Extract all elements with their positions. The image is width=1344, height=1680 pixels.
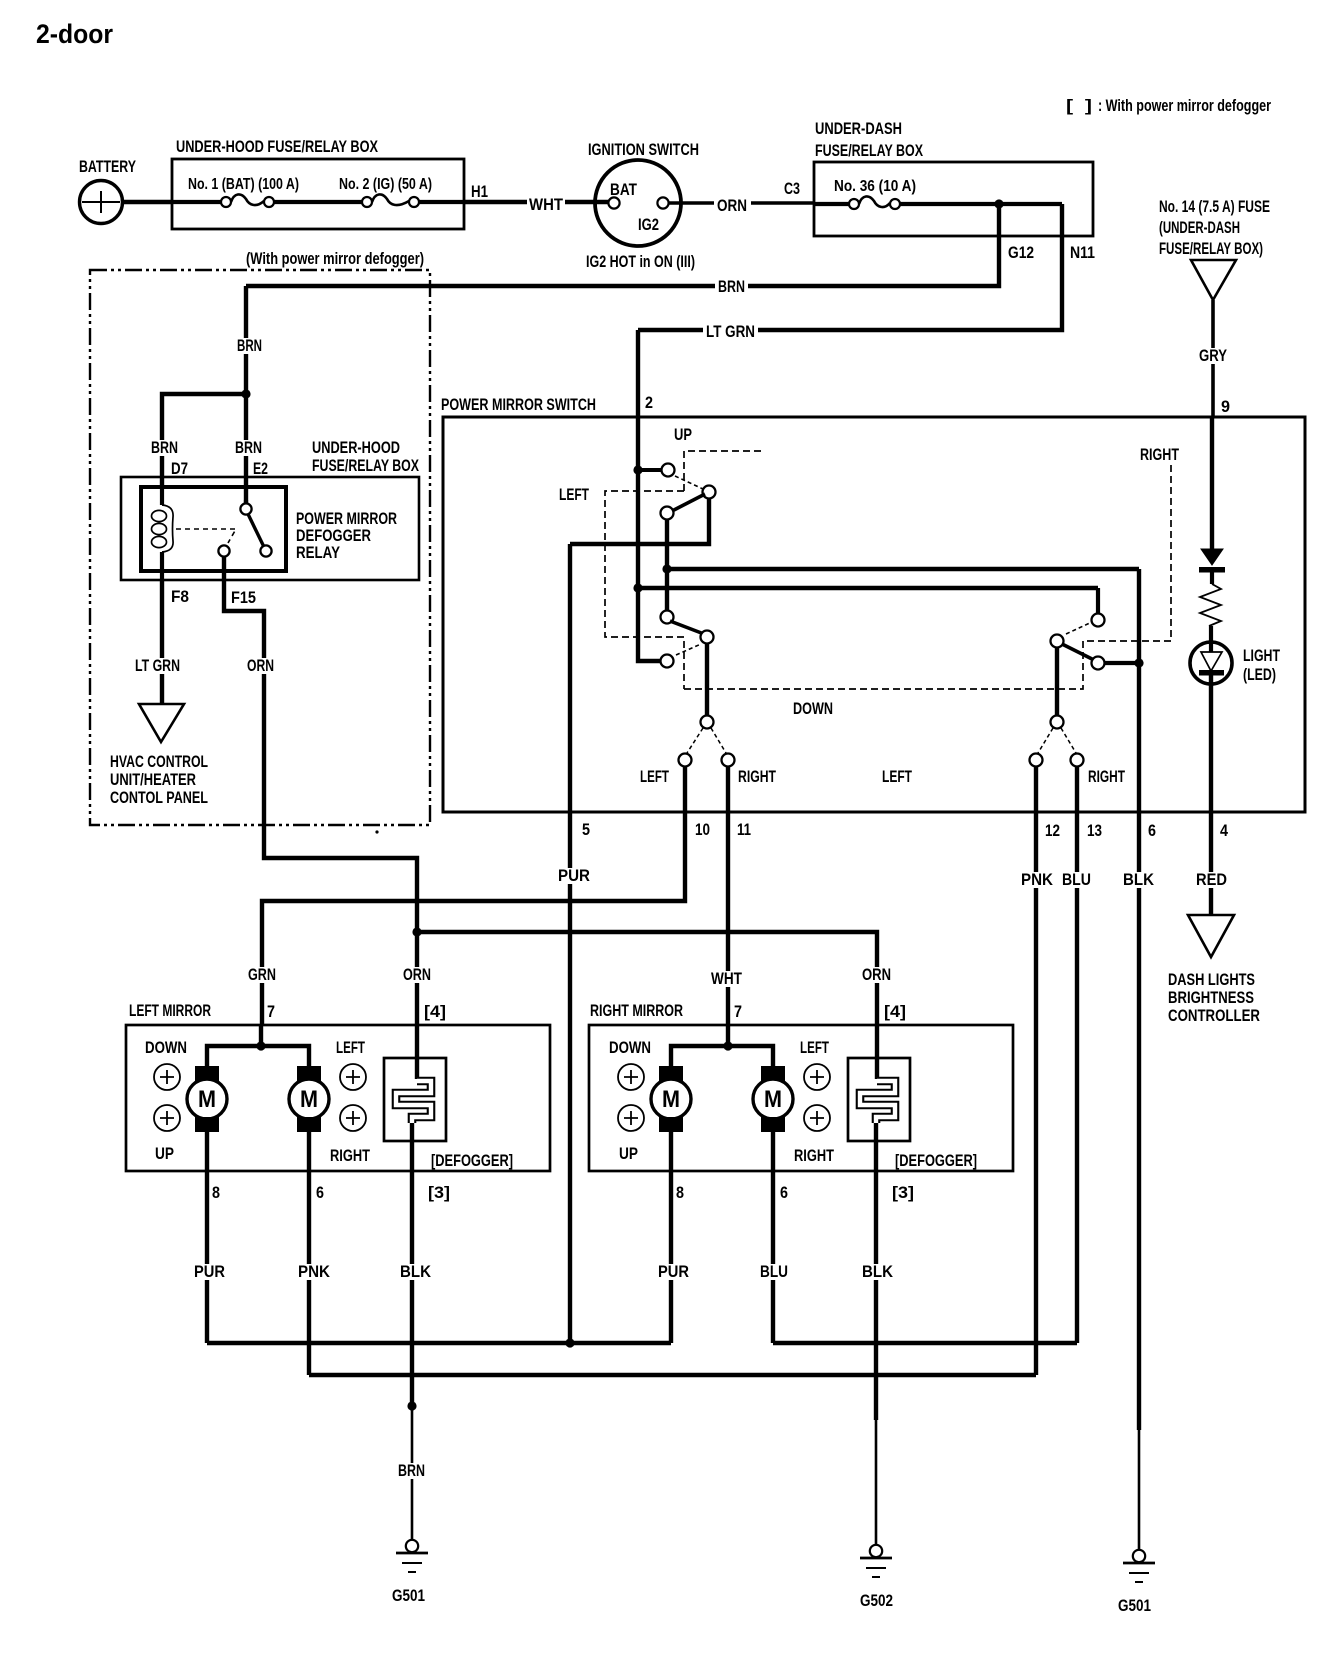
svg-text:LEFT: LEFT	[640, 767, 669, 786]
wires to pins 10 and 11	[683, 766, 687, 812]
under-hood fuse/relay box (relay)	[121, 477, 419, 580]
svg-text:UNDER-DASH: UNDER-DASH	[815, 119, 902, 138]
wire RED from pin 4	[1209, 812, 1213, 915]
wire GRN pin 10 to left mirror pin 7	[262, 812, 685, 1025]
wire to right switch lower feed	[638, 586, 1098, 590]
wire BLK right mirror pin 3 to ground G502	[874, 1171, 878, 1420]
motor wires to pins 8 and 6	[205, 1132, 209, 1171]
wire PNK left mirror pin 6	[307, 1171, 311, 1375]
wire defogger to pin [3]	[410, 1123, 414, 1171]
stray mark	[375, 830, 378, 833]
LEFT dashed position box	[605, 491, 684, 689]
svg-text:FUSE/RELAY BOX): FUSE/RELAY BOX)	[1159, 239, 1263, 258]
svg-text:ORN: ORN	[717, 196, 747, 215]
svg-text:11: 11	[737, 820, 751, 839]
junction node BRN split	[241, 389, 250, 398]
svg-text:G12: G12	[1008, 243, 1034, 262]
svg-text:: With power mirror defogger: : With power mirror defogger	[1098, 96, 1271, 115]
svg-text:LEFT: LEFT	[882, 767, 912, 786]
right mirror box	[589, 1025, 1013, 1171]
svg-text:[DEFOGGER]: [DEFOGGER]	[431, 1151, 513, 1170]
wire LT GRN to HVAC	[160, 580, 164, 704]
pivot contact and arm (upper)	[703, 486, 716, 499]
dashed box: with power mirror defogger	[90, 270, 430, 825]
svg-text:PUR: PUR	[658, 1262, 689, 1281]
svg-text:F8: F8	[171, 587, 189, 606]
polarity marks	[154, 1064, 180, 1090]
svg-text:IGNITION SWITCH: IGNITION SWITCH	[588, 140, 699, 159]
diode	[1201, 549, 1223, 565]
svg-text:CONTOL PANEL: CONTOL PANEL	[110, 788, 208, 807]
svg-text:M: M	[662, 1086, 680, 1113]
under-hood fuse/relay box	[172, 159, 464, 229]
svg-text:RIGHT: RIGHT	[794, 1146, 834, 1165]
svg-text:UP: UP	[155, 1144, 174, 1163]
svg-text:RIGHT MIRROR: RIGHT MIRROR	[590, 1001, 683, 1020]
svg-text:[3]: [3]	[892, 1183, 914, 1202]
svg-text:CONTROLLER: CONTROLLER	[1168, 1006, 1260, 1025]
svg-text:WHT: WHT	[529, 195, 564, 214]
svg-text:BRN: BRN	[398, 1461, 425, 1480]
wire BLK from pin 6 to ground	[1137, 812, 1141, 1430]
svg-text:POWER MIRROR SWITCH: POWER MIRROR SWITCH	[441, 395, 596, 414]
svg-text:8: 8	[676, 1183, 684, 1202]
junction on pin 2 column	[633, 583, 642, 592]
wire battery to under-hood fuse box	[123, 200, 172, 204]
svg-text:10: 10	[695, 820, 710, 839]
svg-text:DASH LIGHTS: DASH LIGHTS	[1168, 970, 1255, 989]
selector common right	[1055, 647, 1059, 716]
svg-text:13: 13	[1087, 821, 1102, 840]
svg-text:(UNDER-DASH: (UNDER-DASH	[1159, 218, 1240, 237]
svg-text:PUR: PUR	[194, 1262, 225, 1281]
svg-text:(With power mirror defogger): (With power mirror defogger)	[246, 249, 424, 268]
svg-text:BLK: BLK	[1123, 870, 1155, 889]
svg-text:GRY: GRY	[1199, 346, 1228, 365]
svg-text:BRIGHTNESS: BRIGHTNESS	[1168, 988, 1254, 1007]
power mirror defogger relay	[141, 487, 286, 571]
svg-text:PNK: PNK	[1021, 870, 1054, 889]
left mirror box	[126, 1025, 550, 1171]
svg-text:M: M	[764, 1086, 782, 1113]
connector arrow to HVAC control unit	[139, 704, 184, 742]
svg-text:G501: G501	[392, 1586, 425, 1605]
pin 2 column wire	[638, 330, 660, 661]
up/down switch lower section	[661, 611, 674, 624]
DOWN and RIGHT dashed position boxes	[684, 464, 1171, 689]
svg-text:UP: UP	[674, 425, 692, 444]
svg-text:DOWN: DOWN	[609, 1038, 651, 1057]
svg-text:UNDER-HOOD: UNDER-HOOD	[312, 438, 400, 457]
svg-text:BLK: BLK	[862, 1262, 894, 1281]
resistor	[1200, 584, 1221, 626]
junction node BRN	[407, 1401, 416, 1410]
svg-text:FUSE/RELAY BOX: FUSE/RELAY BOX	[815, 141, 923, 160]
svg-text:[ ]: [ ]	[1066, 96, 1092, 115]
motor up/down	[195, 1066, 219, 1081]
svg-text:BLK: BLK	[400, 1262, 432, 1281]
svg-text:LIGHT: LIGHT	[1243, 646, 1280, 665]
svg-text:ORN: ORN	[403, 965, 431, 984]
dashed link UP	[675, 476, 703, 489]
svg-text:ORN: ORN	[862, 965, 891, 984]
light LED	[1190, 642, 1232, 684]
svg-text:LEFT: LEFT	[336, 1038, 365, 1057]
wire pin 7 branch to motors	[259, 1025, 263, 1046]
svg-text:UP: UP	[619, 1144, 638, 1163]
svg-text:[4]: [4]	[424, 1002, 446, 1021]
wire LT GRN from N11 to power mirror switch pin 2	[638, 204, 1062, 330]
svg-text:N11: N11	[1070, 243, 1095, 262]
wire PUR left mirror pin 8	[205, 1171, 209, 1343]
svg-text:2-door: 2-door	[36, 19, 113, 49]
svg-text:LEFT MIRROR: LEFT MIRROR	[129, 1001, 211, 1020]
power mirror switch box	[443, 417, 1305, 812]
wire to right switch upper feed	[667, 567, 1139, 571]
svg-text:G501: G501	[1118, 1596, 1151, 1615]
BLU bus wire	[773, 1341, 1077, 1345]
polarity marks	[618, 1064, 644, 1090]
svg-text:5: 5	[582, 820, 590, 839]
svg-text:RIGHT: RIGHT	[330, 1146, 370, 1165]
svg-text:PNK: PNK	[298, 1262, 331, 1281]
junction node ORN	[412, 927, 421, 936]
wire defogger to pin [3]	[874, 1123, 878, 1171]
svg-text:BRN: BRN	[151, 438, 178, 457]
svg-text:8: 8	[212, 1183, 220, 1202]
svg-text:RIGHT: RIGHT	[1140, 445, 1179, 464]
wire PUR right mirror pin 8	[669, 1171, 673, 1343]
svg-text:12: 12	[1045, 821, 1060, 840]
wire from relay common to F15	[224, 557, 264, 825]
connector arrow to dash lights brightness controller	[1188, 915, 1234, 957]
svg-text:ORN: ORN	[247, 656, 274, 675]
svg-text:7: 7	[734, 1002, 742, 1021]
svg-text:DOWN: DOWN	[145, 1038, 187, 1057]
wire BLK column through box	[1137, 569, 1141, 812]
wire GRY to switch pin 9	[1211, 300, 1215, 417]
svg-text:BRN: BRN	[237, 336, 262, 355]
svg-text:[4]: [4]	[884, 1002, 906, 1021]
svg-text:BLU: BLU	[1062, 870, 1091, 889]
wire pin 7 branch to motors	[726, 1025, 730, 1046]
battery	[80, 181, 123, 224]
wire WHT pin 11 to right mirror pin 7	[726, 812, 730, 1025]
svg-text:LEFT: LEFT	[559, 485, 589, 504]
svg-text:IG2 HOT in ON (III): IG2 HOT in ON (III)	[586, 252, 695, 271]
svg-text:RIGHT: RIGHT	[1088, 767, 1125, 786]
svg-text:DOWN: DOWN	[793, 699, 833, 718]
wire contact to lower section	[665, 519, 669, 611]
wire PUR from pin 5	[568, 544, 572, 1343]
svg-text:6: 6	[780, 1183, 788, 1202]
svg-text:G502: G502	[860, 1591, 893, 1610]
relay mechanical link (dashed)	[176, 529, 236, 543]
ground G502	[870, 1545, 882, 1557]
under-dash fuse/relay box	[814, 162, 1093, 236]
PNK bus wire	[309, 1373, 1036, 1377]
svg-text:2: 2	[645, 393, 653, 412]
svg-text:UNIT/HEATER: UNIT/HEATER	[110, 770, 196, 789]
svg-text:BATTERY: BATTERY	[79, 157, 136, 176]
motor left/right	[297, 1066, 321, 1081]
ground G501	[406, 1540, 418, 1552]
svg-text:RIGHT: RIGHT	[738, 767, 776, 786]
wire PNK from pin 12	[1034, 812, 1038, 1375]
svg-text:[DEFOGGER]: [DEFOGGER]	[895, 1151, 977, 1170]
relay coil	[160, 487, 164, 505]
motor up/down	[659, 1066, 683, 1081]
svg-text:RELAY: RELAY	[296, 543, 341, 562]
svg-text:7: 7	[267, 1002, 275, 1021]
wire LED to pin 4	[1209, 675, 1213, 812]
svg-text:FUSE/RELAY BOX: FUSE/RELAY BOX	[312, 456, 419, 475]
svg-text:RED: RED	[1196, 870, 1227, 889]
svg-text:HVAC CONTROL: HVAC CONTROL	[110, 752, 208, 771]
wire pivot to pin 5	[570, 498, 709, 544]
defogger element	[384, 1058, 446, 1141]
wire BLK left mirror pin 3 to ground	[410, 1171, 414, 1406]
svg-text:(LED): (LED)	[1243, 665, 1276, 684]
svg-text:No. 36 (10 A): No. 36 (10 A)	[834, 178, 916, 195]
svg-text:PUR: PUR	[558, 866, 590, 885]
wire BLU right mirror pin 6	[771, 1171, 775, 1343]
motor left/right	[761, 1066, 785, 1081]
svg-text:4: 4	[1220, 821, 1228, 840]
svg-text:No. 1 (BAT) (100 A): No. 1 (BAT) (100 A)	[188, 176, 299, 193]
relay contacts and arm	[244, 500, 248, 504]
svg-text:6: 6	[316, 1183, 324, 1202]
svg-text:H1: H1	[471, 182, 488, 201]
svg-text:6: 6	[1148, 821, 1156, 840]
svg-text:9: 9	[1221, 397, 1230, 416]
svg-text:F15: F15	[231, 588, 256, 607]
ground G501	[1133, 1550, 1145, 1562]
svg-text:[3]: [3]	[428, 1183, 450, 1202]
svg-text:UNDER-HOOD FUSE/RELAY BOX: UNDER-HOOD FUSE/RELAY BOX	[176, 137, 378, 156]
wire pivot down to selector common	[705, 643, 709, 716]
svg-text:M: M	[198, 1086, 216, 1113]
motor wires to pins 8 and 6	[669, 1132, 673, 1171]
wires to pins 12 and 13	[1034, 766, 1038, 812]
BRN label on ground wire	[395, 1463, 428, 1479]
connector arrow from No.14 fuse	[1191, 260, 1236, 300]
wire BRN from G12 to defogger circuit	[246, 204, 999, 286]
svg-text:BAT: BAT	[610, 181, 637, 199]
wire ORN from F15 to mirror defoggers	[264, 825, 417, 1025]
UP dashed position box	[684, 451, 762, 491]
svg-text:C3: C3	[784, 179, 800, 198]
svg-text:GRN: GRN	[248, 965, 276, 984]
right mirror select switch	[1096, 588, 1100, 614]
svg-text:M: M	[300, 1086, 318, 1113]
svg-text:IG2: IG2	[638, 216, 659, 234]
svg-text:BRN: BRN	[235, 438, 262, 457]
svg-text:BLU: BLU	[760, 1262, 788, 1281]
wire pin 9 to diode	[1210, 417, 1214, 549]
PUR bus wire	[207, 1341, 671, 1345]
svg-text:No. 2 (IG) (50 A): No. 2 (IG) (50 A)	[339, 176, 432, 193]
svg-text:No. 14 (7.5 A) FUSE: No. 14 (7.5 A) FUSE	[1159, 197, 1270, 216]
svg-text:LT GRN: LT GRN	[135, 656, 180, 675]
wire BRN into defogger relay	[244, 286, 248, 394]
svg-text:D7: D7	[171, 459, 188, 478]
up/down switch upper section	[633, 465, 642, 474]
wire ORN ignition to under-dash box	[669, 201, 714, 204]
svg-text:LEFT: LEFT	[800, 1038, 829, 1057]
selector dashed V left circuit	[687, 728, 726, 753]
svg-text:LT GRN: LT GRN	[706, 322, 755, 341]
svg-text:E2: E2	[253, 459, 268, 478]
defogger element	[848, 1058, 910, 1141]
ORN label on F15 wire	[244, 658, 277, 674]
junction node G12	[994, 199, 1003, 208]
svg-text:WHT: WHT	[711, 969, 742, 988]
svg-text:BRN: BRN	[718, 277, 745, 296]
wire BLU from pin 13	[1075, 812, 1079, 1343]
wire WHT to ignition switch	[419, 200, 464, 204]
